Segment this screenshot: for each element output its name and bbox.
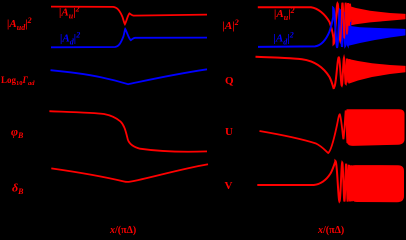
- right panel 2: red curve Q: [256, 57, 351, 89]
- left panel 2: blue curve Log10 Gamma_ad: [51, 69, 208, 84]
- right panel 2: red envelope wedge Q: [349, 59, 406, 84]
- left panel 1: blue curve |A_d|^2: [51, 29, 207, 47]
- right panel 3: red curve U: [260, 111, 348, 154]
- left panel 4: red curve delta_B: [51, 164, 208, 182]
- svg-text:x/(πΔ): x/(πΔ): [109, 225, 136, 236]
- left panel 3: red curve phi_B: [49, 111, 207, 152]
- right panel 1: red strokes overlay in dense zone: [340, 3, 350, 41]
- right panel 4: red block V: [352, 165, 405, 202]
- right panel 1: blue envelope wedge: [349, 26, 406, 46]
- right panel 4: red curve V: [257, 161, 352, 202]
- right panel 1: red envelope wedge: [348, 6, 406, 27]
- svg-text:Q: Q: [225, 75, 234, 87]
- svg-text:x/(πΔ): x/(πΔ): [317, 225, 344, 236]
- svg-text:U: U: [225, 126, 233, 138]
- svg-text:V: V: [225, 180, 233, 192]
- right panel 1: blue curve |A_d|^2 with oscillations: [258, 8, 350, 47]
- right panel 1: red curve |A_u|^2 with oscillations: [258, 3, 351, 44]
- right panel 3: red block U: [347, 109, 405, 146]
- left panel 1: red curve |A_u|^2: [51, 7, 207, 25]
